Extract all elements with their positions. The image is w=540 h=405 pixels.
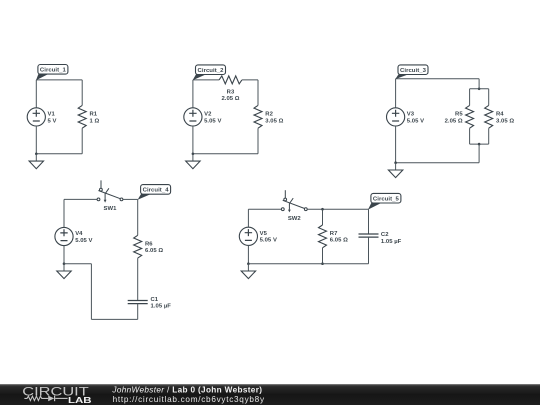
svg-text:V1: V1 — [48, 112, 56, 118]
wire — [322, 209, 324, 225]
wire — [123, 198, 138, 200]
V4 value label — [75, 231, 92, 244]
callout Circuit_1 — [36, 65, 68, 81]
V5 value label — [260, 231, 277, 244]
wire — [63, 246, 65, 264]
svg-text:R5: R5 — [455, 112, 463, 118]
callout Circuit_3 — [395, 65, 428, 79]
node junction — [321, 262, 324, 265]
svg-text:R2: R2 — [265, 112, 273, 118]
C2 value label — [381, 232, 402, 245]
svg-text:http://circuitlab.com/cb6vytc3: http://circuitlab.com/cb6vytc3qyb8y — [113, 395, 265, 404]
node junction — [478, 143, 481, 146]
wire — [193, 79, 219, 81]
svg-text:R7: R7 — [330, 231, 338, 237]
wire — [242, 79, 258, 81]
svg-text:5.05 V: 5.05 V — [204, 118, 221, 124]
R6 value label — [145, 241, 163, 254]
wire — [36, 79, 82, 81]
V2 value label — [204, 112, 221, 125]
wire — [469, 128, 471, 144]
svg-text:R6: R6 — [145, 241, 153, 247]
wire — [396, 162, 480, 164]
svg-text:3.05 Ω: 3.05 Ω — [265, 118, 283, 124]
V1 value label — [48, 112, 57, 125]
wire — [192, 126, 194, 154]
wire — [368, 209, 370, 234]
resistor R3 — [219, 76, 242, 84]
svg-text:SW1: SW1 — [104, 206, 118, 212]
svg-text:LAB: LAB — [68, 395, 92, 405]
capacitor C2 — [359, 234, 379, 237]
footer bar — [0, 384, 540, 405]
wire — [247, 209, 249, 227]
wire — [488, 89, 490, 106]
wire — [35, 126, 37, 154]
svg-text:V3: V3 — [407, 112, 415, 118]
resistor R5 — [466, 105, 474, 128]
wire — [257, 80, 259, 106]
svg-text:2.05 Ω: 2.05 Ω — [445, 118, 463, 124]
node junction — [35, 153, 38, 156]
node junction — [247, 262, 250, 265]
svg-text:C2: C2 — [381, 232, 389, 238]
svg-text:R4: R4 — [496, 112, 504, 118]
ground — [241, 264, 255, 279]
svg-text:6.05 Ω: 6.05 Ω — [330, 238, 348, 244]
svg-text:Circuit_5: Circuit_5 — [373, 196, 400, 202]
wire — [257, 128, 259, 154]
wire — [137, 199, 139, 235]
svg-text:6.05 Ω: 6.05 Ω — [145, 248, 163, 254]
switch SW1 — [97, 180, 123, 202]
wire — [64, 263, 91, 265]
switch SW2 — [281, 190, 307, 212]
svg-text:Circuit_1: Circuit_1 — [40, 67, 67, 73]
voltage source V2 — [184, 108, 202, 126]
wire — [478, 79, 480, 89]
wire — [192, 80, 194, 108]
resistor R4 — [485, 105, 493, 128]
V3 value label — [407, 112, 424, 125]
svg-text:V4: V4 — [75, 231, 83, 237]
node junction — [478, 88, 481, 91]
callout Circuit_5 — [368, 193, 401, 209]
R2 value label — [265, 112, 283, 125]
svg-text:Circuit_2: Circuit_2 — [198, 68, 225, 74]
wire — [395, 126, 397, 163]
wire — [248, 263, 368, 265]
wire — [470, 143, 489, 145]
voltage source V1 — [27, 108, 45, 126]
svg-text:2.05 Ω: 2.05 Ω — [221, 96, 239, 102]
node junction — [321, 208, 324, 211]
wire — [35, 80, 37, 108]
svg-text:5.05 V: 5.05 V — [260, 238, 277, 244]
svg-text:5.05 V: 5.05 V — [407, 118, 424, 124]
node junction — [394, 161, 397, 164]
wire — [64, 198, 97, 200]
wire — [248, 208, 281, 210]
wire — [395, 79, 397, 108]
R3 value label — [221, 90, 239, 103]
svg-text:5 V: 5 V — [48, 118, 57, 124]
wire — [368, 237, 370, 264]
resistor R6 — [134, 235, 142, 258]
wire — [193, 153, 258, 155]
ground — [186, 154, 200, 169]
callout Circuit_2 — [193, 65, 226, 80]
callout Circuit_4 — [138, 185, 171, 200]
wire — [36, 153, 82, 155]
wire — [470, 88, 489, 90]
svg-text:Circuit_3: Circuit_3 — [400, 68, 427, 74]
svg-text:1.05 µF: 1.05 µF — [151, 304, 172, 310]
svg-text:V5: V5 — [260, 231, 268, 237]
svg-text:V2: V2 — [204, 112, 212, 118]
svg-text:R3: R3 — [227, 90, 235, 96]
capacitor C1 — [128, 301, 148, 304]
svg-text:Circuit_4: Circuit_4 — [143, 188, 170, 194]
wire — [478, 144, 480, 163]
resistor R7 — [319, 225, 327, 248]
wire — [137, 258, 139, 300]
R4 value label — [496, 112, 514, 125]
node junction — [192, 153, 195, 156]
wire — [137, 304, 139, 320]
R1 value label — [90, 112, 100, 125]
voltage source V3 — [387, 108, 405, 126]
svg-text:1.05 µF: 1.05 µF — [381, 239, 402, 245]
wire — [63, 199, 65, 227]
voltage source V5 — [239, 227, 257, 245]
ground — [57, 264, 71, 279]
wire — [396, 78, 480, 80]
svg-text:JohnWebster / Lab 0 (John Webs: JohnWebster / Lab 0 (John Webster) — [111, 385, 262, 394]
wire — [247, 245, 249, 263]
R5 value label — [445, 112, 464, 125]
wire — [307, 208, 368, 210]
wire — [81, 80, 83, 106]
node junction — [63, 262, 66, 265]
wire — [322, 248, 324, 264]
svg-text:5.05 V: 5.05 V — [75, 238, 92, 244]
wire — [469, 89, 471, 106]
ground — [388, 163, 402, 178]
wire — [81, 128, 83, 154]
wire — [488, 128, 490, 144]
C1 value label — [151, 297, 172, 310]
svg-text:1 Ω: 1 Ω — [90, 118, 100, 124]
resistor R2 — [254, 105, 262, 128]
svg-text:3.05 Ω: 3.05 Ω — [496, 118, 514, 124]
wire — [90, 264, 92, 320]
ground — [29, 154, 43, 169]
resistor R1 — [78, 105, 86, 128]
svg-text:SW2: SW2 — [288, 216, 302, 222]
CircuitLab logo — [22, 385, 91, 405]
wire — [91, 318, 137, 320]
R7 value label — [330, 231, 348, 244]
svg-text:R1: R1 — [90, 112, 98, 118]
voltage source V4 — [55, 227, 73, 245]
svg-text:C1: C1 — [151, 297, 159, 303]
